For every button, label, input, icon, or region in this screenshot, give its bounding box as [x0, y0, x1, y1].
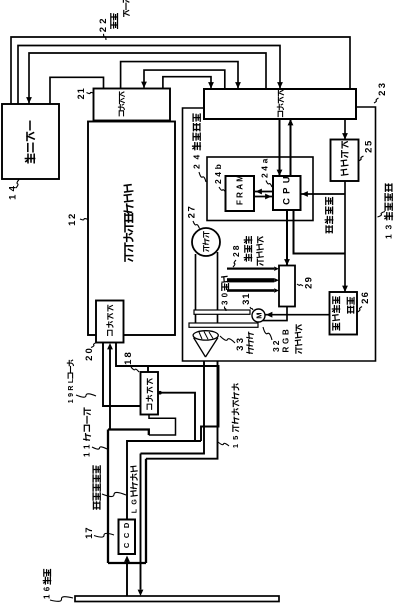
bus connector23-CPU — [279, 119, 281, 176]
CCD box 17 — [119, 520, 136, 555]
FRAM-CPU arrows — [254, 191, 273, 193]
lamp 27 circle — [192, 228, 220, 256]
CPU to filter box 29 wire — [286, 210, 288, 266]
wire 26 to motor M — [265, 314, 330, 316]
aperture plate 30 — [194, 310, 250, 314]
svg-text:33: 33 — [235, 336, 246, 351]
dimming signal wire buffer to 26 and CPU — [344, 181, 346, 292]
svg-text:28: 28 — [231, 243, 241, 257]
svg-text:LG: LG — [131, 495, 138, 513]
aperture control circuit box 26 — [330, 292, 358, 335]
svg-text:20: 20 — [84, 346, 95, 361]
svg-text:13: 13 — [383, 220, 393, 239]
svg-text:32: 32 — [271, 338, 281, 352]
svg-text:24a: 24a — [259, 156, 269, 178]
svg-text:16: 16 — [43, 583, 52, 599]
special light filters 28 — [227, 268, 274, 270]
svg-text:15: 15 — [231, 432, 240, 449]
svg-text:14: 14 — [8, 183, 19, 200]
wire D connector21 to connector23 — [163, 77, 211, 89]
link box29 to motor — [258, 307, 287, 321]
junction dot — [158, 391, 162, 395]
control circuit box 24 — [207, 157, 313, 221]
svg-text:CPU: CPU — [282, 172, 293, 205]
light beam lines from lamp — [195, 254, 197, 323]
video processor box 12 — [88, 122, 175, 336]
connector 23 box — [204, 89, 356, 119]
svg-text:RGB: RGB — [282, 326, 291, 352]
svg-text:19RL: 19RL — [68, 376, 75, 403]
insertion tube — [107, 430, 109, 564]
svg-text:M: M — [254, 313, 263, 319]
svg-text:CCD: CCD — [122, 518, 131, 548]
connector 18 box — [141, 372, 159, 415]
svg-text:29: 29 — [304, 276, 315, 289]
svg-text:26: 26 — [360, 291, 371, 304]
wires connector20 down — [103, 342, 141, 406]
svg-text:12: 12 — [67, 212, 78, 226]
signal line CCD up through scope, row D — [127, 441, 201, 520]
wire C connector23 to connector21 — [144, 70, 225, 89]
monitor box — [2, 104, 59, 179]
body cavity bar 16 — [75, 596, 279, 602]
condenser lens 33 — [193, 331, 218, 340]
label 映像信号線 — [93, 502, 99, 509]
scope body outline 11 — [108, 430, 149, 436]
svg-text:11: 11 — [83, 440, 92, 457]
FRAM box 24b — [226, 176, 255, 211]
svg-text:24: 24 — [191, 150, 201, 169]
svg-text:24b: 24b — [213, 162, 223, 184]
svg-text:22: 22 — [98, 15, 109, 32]
motor M 31 — [252, 309, 265, 322]
svg-text:25: 25 — [364, 139, 375, 153]
svg-text:27: 27 — [187, 205, 198, 219]
connector 21 box — [94, 89, 171, 121]
cable 22 wire L2 — [18, 46, 280, 105]
LG bundle line — [140, 454, 142, 564]
wire monitor to connector 21 — [50, 77, 104, 104]
svg-text:30: 30 — [221, 290, 230, 305]
cable 22 wire L3 (into monitor, arrow) — [29, 53, 266, 104]
LG light to body cavity — [140, 563, 142, 590]
wire connector23 to buffer — [344, 119, 346, 140]
svg-text:FRAM: FRAM — [236, 173, 245, 205]
light guide cord from light source — [141, 361, 205, 454]
buffer box 25 — [331, 140, 359, 182]
filter moving box 29 — [279, 266, 295, 307]
svg-text:18: 18 — [123, 350, 134, 365]
light source unit box 13 outline — [183, 107, 376, 361]
svg-text:21: 21 — [76, 87, 86, 99]
signal line below CCD — [126, 561, 128, 596]
label 調光信号 — [326, 226, 332, 233]
cable 22 wire L1 (monitor to connector 23) — [11, 37, 350, 104]
wire B connector21 to connector23 — [121, 62, 238, 89]
video signal wire connector18 junction — [158, 393, 195, 441]
svg-text:23: 23 — [377, 81, 388, 96]
wire conn20 across to light guide area — [116, 342, 219, 441]
svg-text:31: 31 — [241, 293, 252, 305]
svg-text:17: 17 — [84, 527, 95, 539]
RGB filter wheel 32 — [189, 323, 258, 327]
connector18 top stub — [147, 366, 149, 372]
CPU to dimming wire elbow — [294, 210, 346, 254]
CPU box 24a — [273, 176, 301, 210]
connector 20 box — [96, 301, 124, 343]
